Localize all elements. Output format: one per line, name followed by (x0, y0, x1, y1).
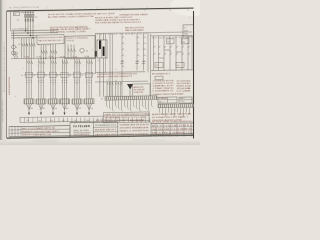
wire feeder 6 cable right (89, 104, 92, 109)
wire strip X2 drop 8 (180, 108, 182, 115)
wire right ladder jumper 3 (159, 57, 165, 59)
wire terminal row divider 13 (75, 117, 77, 122)
wire feeder 5 cable mid (76, 104, 78, 113)
node terminal feeder hook 1-2 (110, 82, 111, 85)
contactor K2 contact stroke 3 (34, 43, 36, 46)
wire feeder 2 cable mid (40, 104, 42, 113)
wire terminal row divider 16 (88, 117, 90, 122)
wire right ladder jumper 2 (176, 51, 182, 53)
svg-text:2 4 6: 2 4 6 (131, 120, 144, 122)
node mini table 2 outline (179, 97, 192, 103)
wire bus L2 (11, 31, 58, 34)
wire CT lead a lower (99, 58, 101, 97)
contact on rail x122 6 (122, 66, 124, 67)
wire overload bus (24, 74, 96, 75)
contact feeder 5 tick a3 (79, 79, 80, 81)
wire terminal row divider 29 (145, 117, 147, 122)
wire info row divider 2 (93, 131, 118, 133)
node strip X1 drop hook 1 (107, 105, 108, 107)
wire terminal row divider 10 (62, 117, 64, 122)
wire control rail 3 (121, 34, 123, 97)
wire right ladder rung 2 (158, 36, 160, 71)
node zone tick 6 (144, 9, 146, 11)
wire terminal row divider 6 (45, 117, 47, 122)
wire control section left divider (150, 33, 152, 96)
contact feeder 6 tick a2 (88, 79, 89, 81)
node branch junction 4-1 (50, 58, 51, 59)
node zone tick 2 (44, 9, 46, 11)
relay F6 overload box (73, 72, 80, 77)
node strip X1 drop hook 15 (149, 110, 150, 112)
contactor K1 contact stroke 3 (26, 43, 28, 46)
contact feeder 1 tick a2 (28, 79, 29, 81)
contactor K1 contact stroke 1 (22, 43, 24, 46)
wire branch drop group 3 lead 1 (40, 44, 42, 58)
node terminal feeder hook 1-1 (107, 82, 108, 85)
svg-text:HALL IN TIROL: HALL IN TIROL (74, 129, 91, 132)
wire enclosure contact lead 2 (70, 45, 72, 59)
relay K13 box upper (167, 39, 175, 44)
svg-text:F4: F4 (45, 75, 47, 77)
wire center section right rail (147, 33, 149, 72)
node terminal block group 2 (36, 99, 46, 104)
wire feeder group 4 phase 2 upper (64, 59, 66, 99)
contact on rail x143.5 3 (144, 49, 146, 50)
wire incomer top connector (21, 11, 34, 13)
node bus junction 4 (32, 37, 33, 38)
contact on rail x137 5 (137, 61, 139, 62)
contact pair lower rail 3 (142, 63, 145, 65)
node terminal strip X1 (105, 96, 157, 100)
svg-text:X1: X1 (101, 98, 103, 100)
svg-text:GR. 00 DIN 43620: GR. 00 DIN 43620 (177, 81, 191, 83)
wire terminal row divider 8 (54, 117, 56, 122)
node terminal feeder hook 2-2 (118, 82, 119, 85)
node branch junction 3-2 (43, 58, 44, 59)
contact feeder 1 tick b3 (31, 81, 32, 83)
wire strip X1 drop 16 (151, 100, 153, 105)
wire right grid column 4 (176, 124, 178, 137)
contact feeder 4 tick b2 (64, 81, 65, 83)
node strip X1 drop hook 9 (131, 110, 132, 112)
wire terminal row divider 27 (136, 117, 138, 122)
svg-text:2,5 QMM: 2,5 QMM (177, 91, 193, 93)
svg-text:K2: K2 (26, 44, 28, 46)
wire contactor K2 lead 1 (28, 38, 30, 59)
wire feeder group 5 phase 1 upper (74, 59, 76, 99)
wire bus L3 (11, 34, 58, 37)
wire CT lead a (99, 34, 101, 41)
isolator Q1 blade 1 (25, 19, 26, 22)
svg-text:Q1: Q1 (17, 20, 19, 22)
wire strip X1 drop 10 (133, 100, 135, 105)
wire revision column 5 (20, 127, 22, 137)
wire right ladder jumper 1 (164, 49, 170, 51)
wire revision column 1 (8, 127, 10, 137)
contact right ladder low 7 (188, 53, 190, 55)
wire enclosure contact lead 1 (67, 45, 69, 59)
wire terminal row divider 11 (67, 117, 69, 122)
wire info block right edge (117, 123, 119, 137)
wire right ladder rung 1 (153, 36, 155, 71)
relay F7 overload box (85, 72, 92, 77)
wire terminal row divider 23 (119, 117, 121, 122)
wire feeder group 1 phase 3 upper (30, 59, 32, 99)
wire right grid row line 1 (151, 125, 194, 128)
transformer T1 box (97, 40, 107, 58)
wire strip X1 drop 6 (121, 100, 123, 110)
wire terminal feeder group 2 line 1 (115, 82, 117, 97)
wire revision column 2 (11, 127, 13, 137)
wire strip X2 drop 5 (171, 108, 173, 115)
paper slightly brighter centre (30, 10, 180, 120)
svg-text:3: 3 (72, 7, 73, 9)
node zone tick 5 (119, 9, 121, 11)
wire strip X1 drop 3 (112, 100, 114, 110)
wire center section left rail (95, 33, 97, 72)
svg-text:K5: K5 (86, 51, 88, 53)
svg-text:7: 7 (172, 7, 173, 9)
contact feeder group 1 stroke 3 (31, 61, 33, 64)
wire feeder 6 cable left (87, 104, 90, 110)
contact feeder group 4 stroke 3 (67, 61, 69, 64)
wire revision column 4 (17, 127, 19, 137)
relay F2 overload box (25, 72, 32, 77)
contactor K2 contact stroke 2 (32, 43, 34, 46)
wire contactor K1 lead 1 (21, 38, 23, 59)
wire terminal row divider 12 (71, 117, 73, 122)
wire terminal row divider 20 (106, 117, 108, 122)
svg-text:K12: K12 (177, 65, 180, 67)
contactor K5 contact stroke 2 (71, 48, 73, 51)
node strip X1 drop hook 11 (137, 108, 138, 110)
node legend header box (155, 76, 163, 80)
svg-text:SCHUTZ- U. STEUERTEIL: SCHUTZ- U. STEUERTEIL (66, 38, 88, 40)
wire incoming phase L2 drop (27, 11, 29, 33)
node branch junction 4-3 (55, 58, 56, 59)
wire right ladder rung 4 (169, 36, 171, 71)
wire right border of drawing frame (193, 11, 195, 138)
svg-text:M4: M4 (62, 120, 64, 122)
svg-text:50Hz: 50Hz (184, 33, 188, 35)
fuse F1 element 2 (27, 15, 29, 18)
node top-left reference box (14, 12, 20, 15)
contact on rail x143.5 4 (144, 55, 146, 56)
node terminal block group 4 (60, 99, 70, 104)
wire feeder 3 cable mid (52, 104, 54, 113)
contact right ladder 6 (182, 46, 184, 48)
contact on rail x137 2 (137, 43, 139, 44)
svg-text:4x16: 4x16 (66, 108, 69, 110)
wire terminal row divider 25 (127, 117, 129, 122)
wire feeder group 6 phase 2 upper (88, 59, 90, 99)
svg-text:K13: K13 (168, 41, 171, 43)
svg-text:F1: F1 (36, 17, 38, 19)
wire feeder group 6 phase 1 upper (86, 59, 88, 99)
contact feeder group 2 stroke 1 (39, 61, 41, 64)
svg-text:6: 6 (147, 7, 148, 9)
wire strip X1 drop 12 (139, 100, 141, 110)
wire feeder group 2 phase 2 upper (40, 59, 42, 99)
wire terminal row divider 3 (32, 117, 34, 122)
contact feeder group 3 stroke 3 (55, 61, 57, 64)
contact on rail x143.5 5 (144, 61, 146, 62)
contact feeder 4 tick a2 (64, 79, 65, 81)
wire contactor K1 lead 2 (23, 38, 25, 59)
svg-text:OPERATION SEE TABLE: OPERATION SEE TABLE (119, 13, 149, 16)
node mini table 1 outline (158, 97, 177, 103)
wire terminal row divider 4 (36, 117, 38, 122)
node feeder 5 cable arrow (76, 112, 78, 115)
node strip X1 drop hook 10 (134, 105, 135, 107)
wire feeder group 2 phase 3 upper (42, 59, 44, 99)
wire incoming phase L3 drop (30, 11, 32, 36)
node terminal feeder hook 1-3 (112, 82, 113, 85)
node funnel note box (133, 84, 151, 98)
node branch junction 3-3 (45, 58, 46, 59)
wire funnel drop (129, 89, 131, 96)
wire company underline (73, 132, 91, 134)
wire enclosure contact lead 3 (73, 44, 75, 58)
node strip X1 drop hook 7 (125, 105, 126, 107)
wire strip X2 drop 7 (177, 108, 179, 113)
contact feeder 2 tick b1 (38, 81, 39, 83)
svg-text:M1: M1 (27, 120, 29, 122)
wire strip X2 drop 6 (174, 108, 176, 117)
node strip X1 drop hook 12 (140, 110, 141, 112)
svg-text:K14: K14 (183, 41, 186, 43)
wire control bottom bus (95, 71, 145, 74)
wire strip X1 drop 5 (118, 100, 120, 108)
contact feeder group 3 stroke 2 (53, 61, 55, 64)
svg-text:4x16: 4x16 (78, 108, 81, 110)
node drain funnel symbol (127, 84, 133, 90)
wire feeder 3 cable right (53, 104, 56, 109)
contact feeder group 3 stroke 1 (51, 61, 53, 64)
wire lower distribution bus (11, 57, 96, 58)
contactor K3 contact stroke 2 (44, 50, 46, 53)
wire right grid column 6 (190, 124, 192, 137)
contact feeder 6 tick b3 (91, 81, 92, 83)
isolator Q1 blade 3 (30, 19, 31, 22)
contact right ladder low 3 (164, 53, 166, 55)
wire left border of drawing frame (6, 11, 8, 138)
wire strip X1 drop 15 (148, 100, 150, 110)
wire right grid column 5 (183, 124, 185, 137)
relay F5 overload box (61, 72, 68, 77)
contact pair upper rail 1 (120, 60, 123, 62)
wire terminal row divider 15 (84, 117, 86, 122)
paper background (0, 0, 200, 145)
node strip X1 drop hook 6 (122, 110, 123, 112)
contact on rail x143.5 1 (144, 37, 146, 38)
svg-text:4x16: 4x16 (42, 108, 45, 110)
wire feeder 1 cable right (29, 104, 32, 110)
contactor K5 contact stroke 3 (74, 48, 76, 51)
contact feeder group 4 stroke 2 (65, 61, 67, 64)
wire contactor K2 lead 2 (31, 38, 33, 59)
wire strip X1 drop 9 (130, 100, 132, 110)
contact right ladder low 5 (176, 53, 178, 55)
relay K5 coil (80, 48, 84, 52)
wire strip X1 drop 8 (127, 100, 129, 108)
wire feeder 1 cable mid (28, 104, 30, 113)
wire strip X2 drop 9 (183, 108, 185, 117)
contact on rail x137 4 (137, 55, 139, 56)
node strip X1 drop hook 8 (128, 108, 129, 110)
contact feeder 2 tick b3 (43, 81, 44, 83)
wire strip X2 drop 1 (159, 108, 161, 113)
node cable note box (104, 112, 150, 123)
contactor K5 contact stroke 1 (68, 48, 70, 51)
contact right ladder low 4 (170, 53, 172, 55)
svg-text:VON 2: VON 2 (180, 101, 184, 103)
contact feeder 4 tick b1 (62, 81, 63, 83)
contact pair lower rail 1 (120, 63, 123, 65)
wire strip X2 drop 4 (168, 108, 170, 113)
svg-text:4: 4 (97, 7, 98, 9)
fuse F1 element 1 (25, 15, 27, 18)
wire terminal row divider 1 (23, 117, 25, 122)
svg-text:M5: M5 (75, 120, 77, 122)
wire strip X1 drop 13 (142, 100, 144, 105)
svg-text:F2: F2 (21, 75, 23, 77)
node zone tick 8 (187, 9, 189, 11)
wire strip X1 drop 1 (106, 100, 108, 105)
node strip X1 drop hook 4 (116, 105, 117, 107)
svg-text:F7: F7 (81, 75, 83, 77)
fuse F1 element 3 (30, 15, 32, 18)
contact feeder 3 tick a3 (55, 79, 56, 81)
node terminal feeder hook 2-3 (121, 82, 122, 85)
contact on rail x122 3 (122, 49, 124, 50)
wire inner left border line (10, 11, 12, 31)
wire terminal row divider 26 (132, 117, 134, 122)
contact feeder 1 tick a3 (31, 79, 32, 81)
wire terminal feeder group 2 line 3 (120, 82, 122, 97)
wire terminal row divider 19 (101, 117, 103, 122)
wire title block top left (9, 125, 70, 128)
contact feeder group 4 stroke 1 (62, 61, 64, 64)
wire bottom border of drawing frame (7, 135, 194, 138)
contact feeder group 6 stroke 2 (89, 61, 91, 64)
wire company block left edge (69, 123, 71, 137)
contact on rail x122 1 (122, 37, 124, 38)
contact on rail x137 1 (137, 37, 139, 38)
wire branch drop group 4 lead 3 (54, 44, 56, 58)
wire CT lead b lower (103, 58, 105, 97)
svg-text:FA FELBER: FA FELBER (73, 124, 90, 128)
wire control rail 4 (136, 33, 138, 70)
wire feeder group 3 phase 3 upper (54, 59, 56, 99)
wire strip X2 drop 2 (162, 108, 164, 115)
wire strip X2 drop 10 (186, 108, 188, 113)
contact on rail x122 2 (122, 43, 124, 44)
wire right grid top (151, 122, 194, 125)
wire feeder group 3 phase 1 upper (50, 59, 52, 99)
contact right ladder low 1 (154, 53, 156, 55)
wire feeder 2 cable right (41, 104, 44, 109)
node upper-right note box (183, 25, 193, 37)
node strip X1 drop hook 2 (110, 108, 111, 110)
contact feeder 2 tick a1 (38, 79, 39, 81)
svg-text:2: 2 (47, 7, 48, 9)
meter P2 ammeter (12, 51, 16, 55)
svg-text:M6: M6 (87, 120, 89, 122)
wire CT lead b (103, 34, 105, 41)
svg-text:X2: X2 (159, 102, 161, 104)
node feeder 2 cable arrow (40, 112, 42, 115)
wire feeder 2 cable left (39, 104, 42, 110)
contact feeder group 6 stroke 1 (87, 61, 89, 64)
node zone tick 7 (169, 9, 171, 11)
wire feeder 1 cable left (27, 104, 30, 110)
node bus junction 1 (25, 30, 26, 31)
wire branch drop group 4 lead 1 (50, 44, 52, 58)
wire feeder group 6 phase 3 upper (90, 59, 92, 99)
wire feeder group 5 phase 2 upper (76, 59, 78, 99)
svg-text:F3: F3 (33, 75, 35, 77)
node left note box (37, 35, 64, 44)
relay K12 coil box (176, 62, 184, 67)
node terminal strip X2 (158, 104, 194, 108)
contact feeder group 1 stroke 1 (27, 61, 29, 64)
wire title row line 3 (9, 131, 70, 134)
wire control rail 5 (143, 33, 145, 70)
contact right ladder 1 (154, 46, 156, 48)
wire strip X1 drop 2 (109, 100, 111, 108)
svg-text:8: 8 (190, 7, 191, 9)
wire terminal feeder group 1 line 2 (109, 82, 111, 97)
wire control rail 2 (111, 33, 113, 96)
contact feeder 1 tick b2 (28, 81, 29, 83)
contact right ladder 7 (188, 46, 190, 48)
contact feeder 4 tick a3 (66, 79, 67, 81)
transformer T1 primary bar (99, 40, 101, 49)
relay K14 box upper (182, 39, 190, 44)
contact feeder 6 tick a3 (91, 79, 92, 81)
contact feeder 5 tick a2 (76, 79, 77, 81)
node terminal block group 5 (72, 99, 82, 104)
node zone tick 1 (19, 9, 21, 11)
wire meter branch drop (13, 31, 15, 56)
wire CT centre lead (100, 40, 102, 58)
wire terminal row divider 28 (140, 117, 142, 122)
wire terminal row divider 18 (97, 117, 99, 122)
contactor K3 contact stroke 3 (46, 50, 48, 53)
wire terminal row divider 5 (41, 117, 43, 122)
svg-text:5: 5 (122, 7, 123, 9)
wire bus L1 (11, 29, 58, 32)
node terminal feeder hook 2-1 (116, 82, 117, 85)
node terminal block group 3 (48, 99, 58, 104)
node section divider blob (95, 51, 97, 57)
wire CT aux lead (105, 34, 107, 73)
scanner edge left (0, 0, 3, 145)
contact feeder 4 tick a1 (62, 79, 63, 81)
wire feeder group 1 phase 1 upper (26, 59, 28, 99)
svg-text:K3: K3 (38, 44, 40, 46)
node terminal block group 1 (24, 99, 34, 104)
svg-text:F6: F6 (69, 75, 71, 77)
wire branch drop group 3 lead 2 (43, 44, 45, 58)
contactor K4 contact stroke 3 (55, 50, 57, 53)
wire right grid column 1 (155, 124, 157, 137)
contact feeder 5 tick a1 (74, 79, 75, 81)
node control enclosure outline (65, 36, 95, 59)
wire contactor K2 lead 3 (33, 38, 35, 59)
wire right ladder top rail (151, 34, 193, 37)
